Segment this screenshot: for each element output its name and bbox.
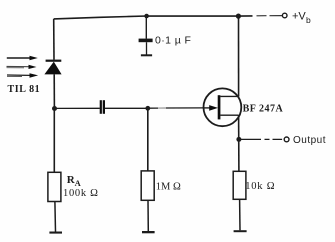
svg-text:+V: +V (292, 11, 306, 23)
node top junction dot (236, 14, 241, 19)
svg-text:TIL 81: TIL 81 (8, 84, 41, 95)
resistor RA body (48, 172, 61, 201)
svg-text:Output: Output (293, 135, 326, 146)
label +Vb (292, 11, 311, 25)
transistor Q1 gate lead and arrow (204, 105, 218, 111)
light arrow 1 (7, 56, 38, 61)
terminal Output (284, 137, 289, 142)
ground middle (142, 231, 155, 233)
wire capacitor lower stub (146, 42, 148, 54)
wire photodiode to junction (53, 74, 55, 108)
svg-text:10k Ω: 10k Ω (245, 181, 275, 192)
node output junction dot (236, 137, 241, 142)
resistor 1M body (141, 171, 154, 200)
svg-text:1M Ω: 1M Ω (156, 181, 181, 192)
ground left (49, 232, 62, 234)
node gate junction dot (145, 106, 150, 111)
transistor Q1 BF247A circle (204, 88, 242, 126)
wire junction to gate (148, 107, 204, 109)
label 1M ohm (156, 181, 181, 192)
transistor Q1 drain inner lead (220, 95, 238, 97)
label RA (67, 174, 82, 188)
wire junction to RA (53, 109, 55, 173)
transistor Q1 channel bar (218, 95, 221, 119)
label 10k ohm (245, 181, 275, 192)
transistor Q1 source inner lead (220, 114, 238, 116)
capacitor C2 coupling left plate (100, 100, 102, 114)
svg-text:100k Ω: 100k Ω (63, 188, 99, 199)
light arrow 2 (7, 65, 37, 69)
wire RA to ground (54, 202, 57, 232)
ground right (234, 230, 247, 232)
wire coupling cap to 1M junction (105, 107, 148, 109)
wire 10k to ground (239, 199, 241, 230)
wire junction to coupling cap (55, 107, 100, 109)
wire output lead (239, 138, 282, 140)
capacitor C1 0.1uF top plate (139, 39, 153, 43)
capacitor C2 coupling right plate (103, 100, 105, 114)
wire capacitor stub (145, 16, 147, 39)
photodiode D1 triangle (44, 62, 61, 75)
svg-text:A: A (75, 178, 82, 188)
photodiode D1 cathode bar (46, 60, 62, 62)
wire top supply rail (54, 16, 253, 19)
label BF 247A (243, 103, 284, 114)
node capacitor stub junction dot (144, 14, 149, 19)
label Output (293, 135, 326, 146)
light arrow 3 (7, 73, 38, 78)
wire source vertical to output junction (238, 115, 240, 171)
svg-text:b: b (306, 15, 311, 25)
wire left branch top (53, 19, 55, 60)
label TIL 81 (8, 84, 41, 95)
wire 1M to ground (147, 200, 149, 231)
svg-text:BF 247A: BF 247A (243, 103, 284, 114)
node left junction dot (52, 106, 57, 111)
svg-text:0·1 µ F: 0·1 µ F (155, 34, 191, 46)
wire top rail dashed segment to +Vb terminal (257, 15, 283, 17)
capacitor C1 bottom terminal bar (141, 54, 152, 56)
wire 1M branch (147, 108, 149, 171)
label 0.1 uF (155, 34, 191, 46)
resistor 10k body (233, 171, 246, 199)
label 100k ohm (63, 188, 99, 199)
wire drain vertical (238, 16, 240, 96)
terminal +Vb (282, 13, 287, 18)
